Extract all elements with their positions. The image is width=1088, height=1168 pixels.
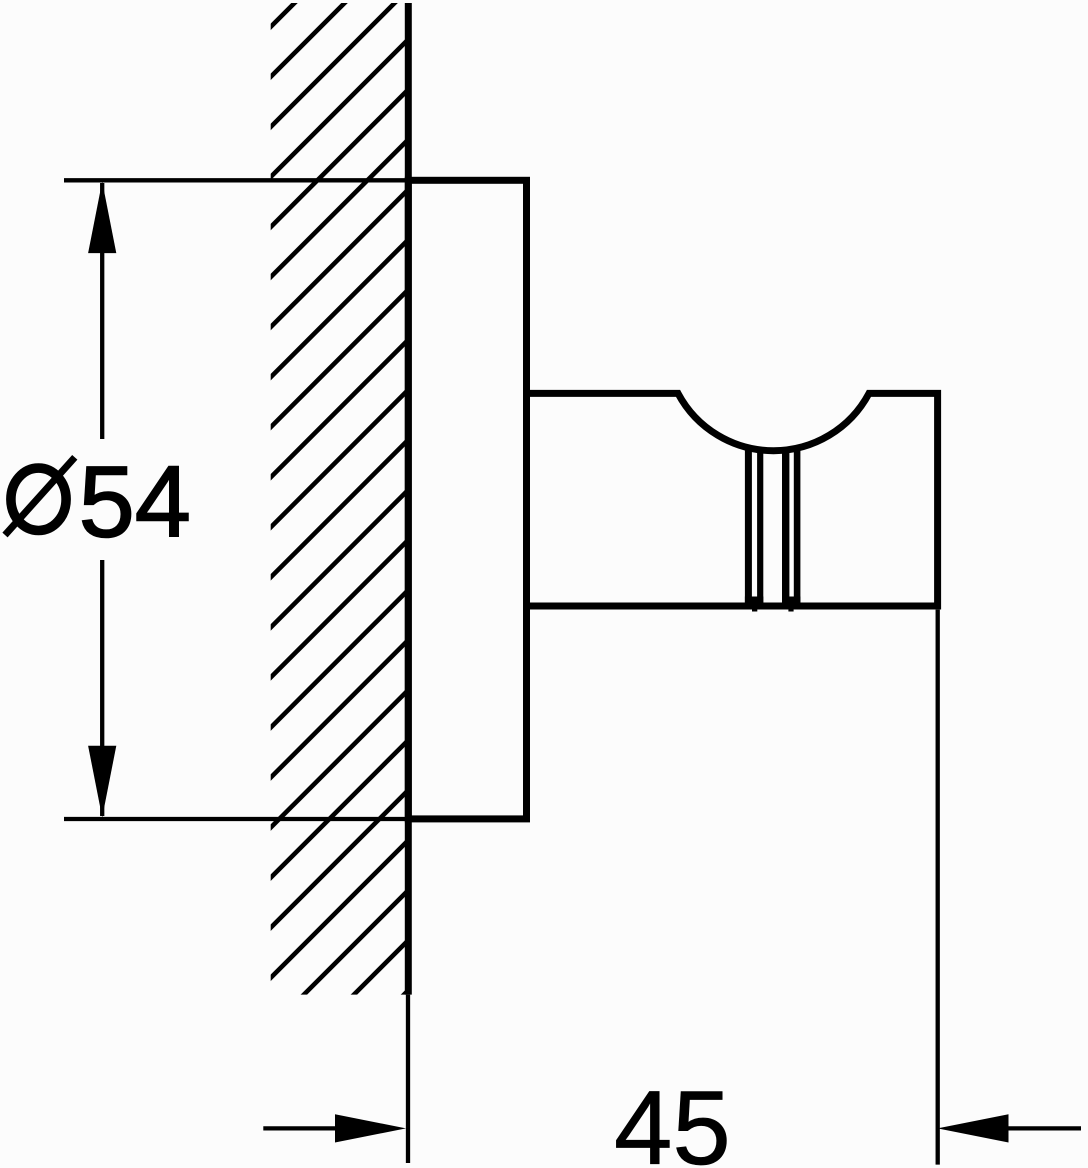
svg-text:45: 45 [614,1070,731,1168]
svg-text:54: 54 [79,447,191,559]
